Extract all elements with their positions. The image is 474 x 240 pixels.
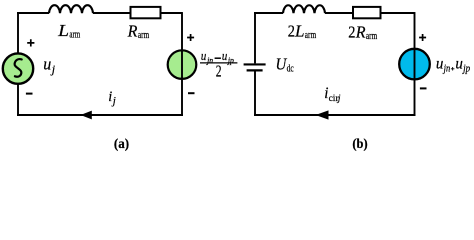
- svg-text:(b): (b): [352, 136, 367, 151]
- svg-text:u: u: [201, 48, 207, 63]
- svg-text:L: L: [57, 21, 69, 40]
- AC source sine symbol: [15, 59, 22, 77]
- inductor 2L_arm: [283, 5, 325, 13]
- wire 2R_arm to top-right corner (b): [381, 12, 415, 14]
- svg-text:i: i: [108, 89, 112, 105]
- svg-text:L: L: [294, 21, 305, 40]
- svg-text:jn: jn: [206, 56, 213, 65]
- svg-text:arm: arm: [366, 31, 377, 42]
- AC source circle u_j: [3, 53, 33, 83]
- label - of controlled source: [188, 92, 195, 94]
- wire between L_arm and R_arm: [93, 12, 131, 14]
- svg-text:dc: dc: [287, 63, 295, 74]
- label + of controlled source: [187, 34, 194, 41]
- svg-text:R: R: [127, 22, 138, 41]
- controlled source circle (u_jn-u_jp)/2: [168, 50, 197, 79]
- capacitor U_dc bottom plate: [247, 69, 263, 71]
- wire left vertical upper (a): [17, 12, 19, 53]
- svg-text:jn: jn: [442, 64, 450, 75]
- svg-text:u: u: [436, 55, 444, 72]
- svg-text:jp: jp: [227, 56, 234, 65]
- svg-text:u: u: [455, 55, 463, 72]
- wire right vertical (b): [414, 12, 416, 115]
- current arrow i_cirj: [316, 110, 329, 119]
- svg-text:u: u: [222, 48, 228, 63]
- svg-text:arm: arm: [305, 30, 316, 41]
- current arrow i_j: [81, 111, 92, 120]
- svg-text:2: 2: [216, 61, 222, 80]
- wire left vertical lower (a): [17, 84, 19, 115]
- wire left vertical upper (b): [254, 12, 256, 63]
- svg-text:(a): (a): [114, 136, 129, 151]
- wire bottom (a): [17, 114, 183, 116]
- label + of source (b): [419, 34, 426, 41]
- wire left vertical lower (b): [254, 72, 256, 116]
- resistor 2R_arm: [353, 7, 381, 18]
- label + of u_j: [27, 39, 34, 46]
- wire top-left segment (a): [17, 12, 49, 14]
- wire right vertical (a): [181, 12, 183, 115]
- svg-text:jp: jp: [461, 64, 470, 75]
- wire between 2L_arm and 2R_arm: [325, 12, 353, 14]
- capacitor U_dc top plate: [244, 63, 266, 65]
- source circle u_jn+u_jp: [399, 49, 430, 80]
- svg-text:2: 2: [348, 23, 355, 42]
- svg-text:u: u: [43, 54, 51, 73]
- svg-text:arm: arm: [69, 30, 80, 41]
- svg-text:R: R: [355, 23, 366, 42]
- svg-text:arm: arm: [138, 30, 149, 41]
- label - of source (b): [420, 87, 427, 89]
- wire top-left segment (b): [254, 12, 283, 14]
- resistor R_arm: [131, 7, 161, 18]
- label - of u_j: [26, 93, 33, 95]
- svg-text:2: 2: [288, 21, 295, 40]
- wire bottom (b): [254, 114, 416, 116]
- inductor L_arm: [49, 5, 93, 13]
- wire R_arm to top-right corner (a): [161, 12, 183, 14]
- fraction bar: [200, 62, 237, 64]
